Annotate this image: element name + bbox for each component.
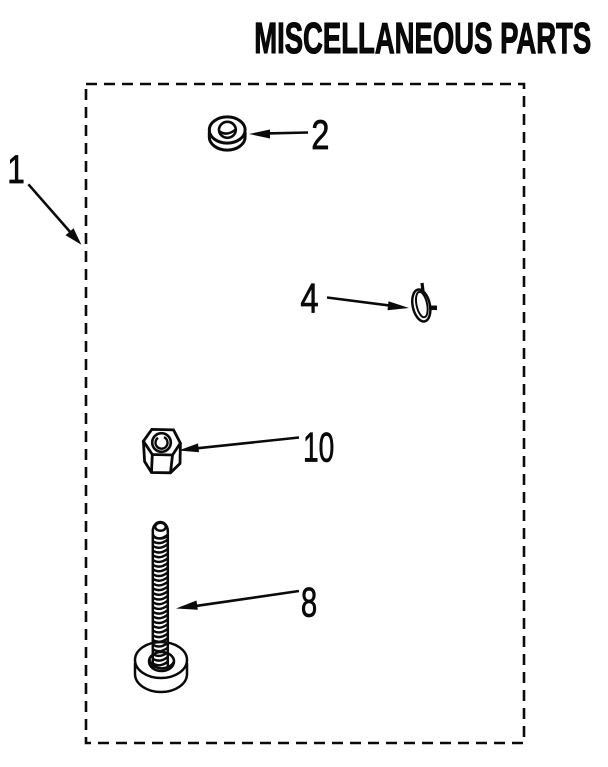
bottom washer of screw: [135, 663, 187, 692]
label 10: [303, 424, 334, 471]
hole front rim over shaft: [150, 659, 175, 668]
svg-text:1: 1: [7, 148, 25, 192]
screw part 8: [135, 522, 187, 692]
screw threads: [153, 535, 168, 666]
arrow for label 4: [327, 298, 409, 311]
clip part 4: [410, 283, 437, 323]
label 4: [300, 275, 318, 322]
svg-text:2: 2: [311, 111, 329, 158]
label 1: [7, 148, 25, 192]
arrow for label 10: [179, 438, 300, 453]
hex nut part 10: [143, 429, 180, 472]
label 2: [311, 111, 329, 158]
svg-text:MISCELLANEOUS PARTS: MISCELLANEOUS PARTS: [254, 15, 591, 63]
screw shaft: [153, 522, 168, 668]
svg-text:8: 8: [301, 578, 317, 626]
arrow for label 8: [176, 591, 299, 610]
svg-text:10: 10: [303, 424, 334, 471]
dashed border box: [86, 84, 524, 743]
arrow for label 2: [249, 130, 308, 139]
arrow for label 1: [28, 184, 81, 244]
svg-text:4: 4: [300, 275, 318, 322]
washer part 2: [209, 117, 245, 150]
label 8: [301, 578, 317, 626]
